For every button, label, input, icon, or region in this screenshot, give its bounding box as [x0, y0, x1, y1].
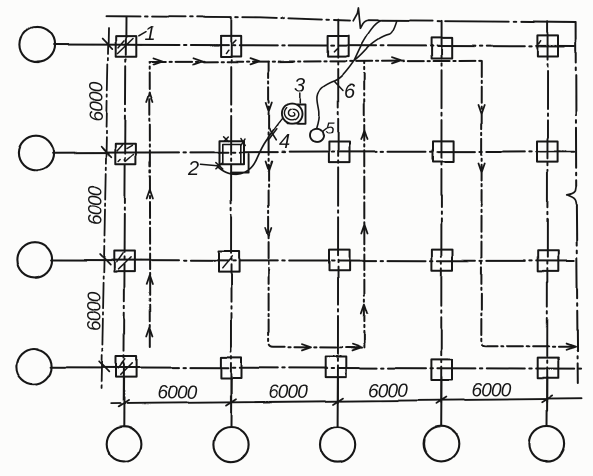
- svg-text:6000: 6000: [87, 81, 108, 121]
- svg-text:4: 4: [279, 132, 290, 154]
- svg-text:1: 1: [144, 23, 155, 45]
- svg-text:6000: 6000: [84, 291, 105, 331]
- svg-text:6000: 6000: [157, 383, 197, 404]
- svg-text:6: 6: [344, 81, 356, 103]
- svg-text:6000: 6000: [471, 380, 511, 401]
- svg-text:5: 5: [325, 120, 335, 138]
- svg-text:6000: 6000: [268, 382, 308, 403]
- svg-text:2: 2: [187, 158, 199, 180]
- svg-text:6000: 6000: [368, 381, 408, 402]
- svg-text:6000: 6000: [86, 185, 107, 225]
- svg-text:3: 3: [294, 75, 305, 97]
